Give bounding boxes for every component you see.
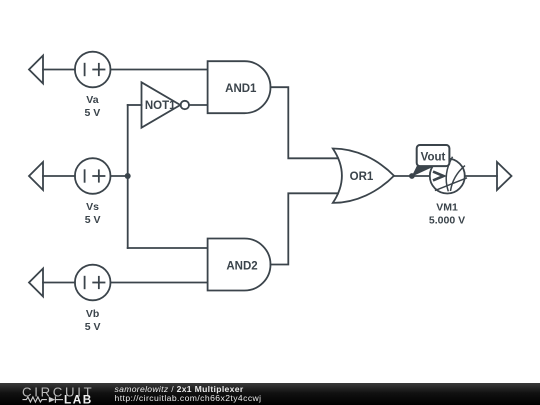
wire to NOT1 input xyxy=(128,104,142,106)
wire OR1 output to VM1 xyxy=(394,175,430,177)
svg-text:Vout: Vout xyxy=(421,152,446,164)
terminal TS (left arrow, Vs row) xyxy=(29,162,43,190)
label AND1 xyxy=(225,83,257,95)
voltage source Va xyxy=(75,52,111,88)
svg-text:AND1: AND1 xyxy=(225,83,257,95)
junction dot node Vout xyxy=(409,173,415,179)
svg-text:5 V: 5 V xyxy=(85,107,101,119)
logo resistor-diode squiggle xyxy=(23,396,64,403)
label VM1 5.000 V xyxy=(429,202,465,227)
footer bar xyxy=(0,383,540,405)
junction dot node S xyxy=(125,173,131,179)
footer title text xyxy=(115,384,262,403)
svg-text:Vs: Vs xyxy=(86,201,99,213)
svg-text:5.000 V: 5.000 V xyxy=(429,215,465,227)
svg-text:LAB: LAB xyxy=(64,392,93,405)
and-gate AND1 xyxy=(208,61,271,113)
wire vertical bus x=127.7 xyxy=(127,105,129,248)
wire Vs to junction xyxy=(111,175,128,177)
svg-text:VM1: VM1 xyxy=(436,202,458,214)
label AND2 xyxy=(226,260,257,272)
label Vb 5 V xyxy=(85,308,101,333)
wire TB to Vb xyxy=(43,282,75,284)
label OR1 xyxy=(350,171,374,183)
wire AND2 output to OR1 input 2 xyxy=(271,193,339,264)
label Vs 5 V xyxy=(85,201,101,226)
wire AND1 output to OR1 input 1 xyxy=(271,87,339,158)
wire TA to Va xyxy=(43,69,75,71)
wire Vb to AND2 input B xyxy=(111,282,208,284)
svg-text:5 V: 5 V xyxy=(85,321,101,333)
svg-text:http://circuitlab.com/ch66x2ty: http://circuitlab.com/ch66x2ty4ccwj xyxy=(115,393,262,403)
inverter NOT1 xyxy=(142,82,190,127)
wire VM1 to output terminal xyxy=(465,175,497,177)
voltage source Vb xyxy=(75,265,111,301)
voltage source Vs xyxy=(75,158,111,194)
logo CIRCUIT xyxy=(22,384,94,399)
logo LAB xyxy=(64,392,93,405)
svg-text:OR1: OR1 xyxy=(350,171,374,183)
node flag Vout xyxy=(412,145,450,177)
wire TS to Vs xyxy=(43,175,75,177)
terminal TB (left arrow, Vb row) xyxy=(29,269,43,297)
terminal TA (left arrow, Va row) xyxy=(29,56,43,84)
svg-text:Va: Va xyxy=(86,94,98,106)
label NOT1 xyxy=(145,100,176,112)
svg-text:NOT1: NOT1 xyxy=(145,100,176,112)
svg-text:AND2: AND2 xyxy=(226,260,257,272)
svg-text:5 V: 5 V xyxy=(85,214,101,226)
wire bus to AND2 input A xyxy=(128,247,208,249)
wire Va to AND1 input A xyxy=(111,69,208,71)
svg-text:Vb: Vb xyxy=(86,308,99,320)
terminal OUT (right arrow) xyxy=(497,162,512,190)
and-gate AND2 xyxy=(208,239,271,291)
or-gate OR1 xyxy=(333,148,394,202)
wire NOT1 to AND1 input B xyxy=(189,104,208,106)
label Va 5 V xyxy=(85,94,101,119)
voltmeter VM1 xyxy=(430,157,467,193)
